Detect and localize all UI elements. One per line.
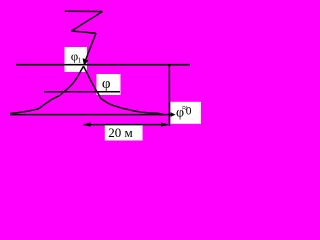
svg-text:φ: φ <box>102 76 111 92</box>
ground line L1 <box>16 64 190 66</box>
svg-text:0: 0 <box>186 106 192 118</box>
dimension right arrowhead <box>161 122 169 126</box>
vertical line V1 at 20 m mark <box>168 64 170 126</box>
lightning arrowhead (strike point) <box>83 58 89 66</box>
svg-text:1: 1 <box>78 56 82 64</box>
svg-text:20 м: 20 м <box>108 125 132 140</box>
dimension line L4 (20 m) <box>84 124 168 126</box>
lightning bolt stroke D2 (diagonal to strike point) <box>85 33 96 62</box>
baseline arrowhead pointing right at phi~0 <box>171 112 176 117</box>
potential curve left branch <box>10 66 84 113</box>
lightning bolt stroke S2 (short horizontal) <box>72 31 97 33</box>
label box phi (white) <box>97 74 121 95</box>
lightning bolt stroke S1 (top horizontal) <box>65 10 103 12</box>
label box 20 m (white) <box>105 125 143 141</box>
lightning bolt stroke D1 (diagonal down-left) <box>72 12 103 32</box>
dimension left arrowhead <box>83 122 91 126</box>
potential curve right branch <box>84 66 164 114</box>
middle level line L2 <box>44 91 120 93</box>
label box phi1 (white) <box>65 47 88 72</box>
label box phi~0 (white) <box>171 102 202 124</box>
baseline axis L3 <box>10 114 172 116</box>
